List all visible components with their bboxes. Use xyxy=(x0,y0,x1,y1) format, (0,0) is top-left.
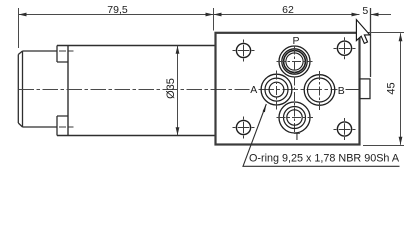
svg-text:5: 5 xyxy=(362,5,368,17)
port P crosshair xyxy=(277,61,313,63)
svg-text:T: T xyxy=(294,131,301,143)
hidden line top xyxy=(59,50,74,52)
wire B to tab xyxy=(346,89,360,91)
bolt hole bottom-right xyxy=(337,122,351,136)
o-ring leader xyxy=(243,104,400,166)
bolt hole bottom-left xyxy=(236,120,250,134)
solenoid retaining nut top xyxy=(57,46,68,63)
dimension 62 xyxy=(214,14,360,16)
dimension 79,5 xyxy=(19,14,214,16)
port A crosshair xyxy=(276,71,278,110)
port B xyxy=(304,75,335,106)
svg-text:Ø35: Ø35 xyxy=(165,78,177,99)
solenoid retaining nut bottom xyxy=(57,116,68,136)
hidden line bottom xyxy=(59,126,74,128)
extension line mid xyxy=(213,8,215,31)
svg-text:62: 62 xyxy=(282,4,294,16)
mouse cursor xyxy=(356,20,369,44)
side plate edge xyxy=(370,8,372,77)
extension line right-top xyxy=(361,32,404,34)
bolt hole top-left xyxy=(236,43,250,57)
valve tube xyxy=(57,46,215,136)
port T crosshair xyxy=(277,117,314,119)
svg-text:O-ring 9,25 x 1,78 NBR 90Sh A: O-ring 9,25 x 1,78 NBR 90Sh A xyxy=(249,153,400,165)
port T xyxy=(279,102,310,133)
valve body xyxy=(216,33,360,145)
svg-text:79,5: 79,5 xyxy=(107,4,128,16)
port P xyxy=(279,46,310,77)
port A xyxy=(261,74,292,105)
solenoid body xyxy=(18,51,57,127)
svg-text:P: P xyxy=(292,35,299,47)
extension line left xyxy=(18,8,20,48)
connector tab xyxy=(360,79,370,99)
port B crosshair xyxy=(319,71,321,110)
extension line right-bottom xyxy=(363,145,404,147)
dimension 45 xyxy=(400,33,402,145)
bolt hole top-right xyxy=(337,41,351,55)
dimension 5 xyxy=(371,14,392,16)
svg-text:A: A xyxy=(250,84,257,96)
main centerline xyxy=(19,89,250,91)
svg-text:B: B xyxy=(338,85,345,97)
svg-text:45: 45 xyxy=(386,82,398,94)
dimension diameter 35 xyxy=(177,46,179,136)
